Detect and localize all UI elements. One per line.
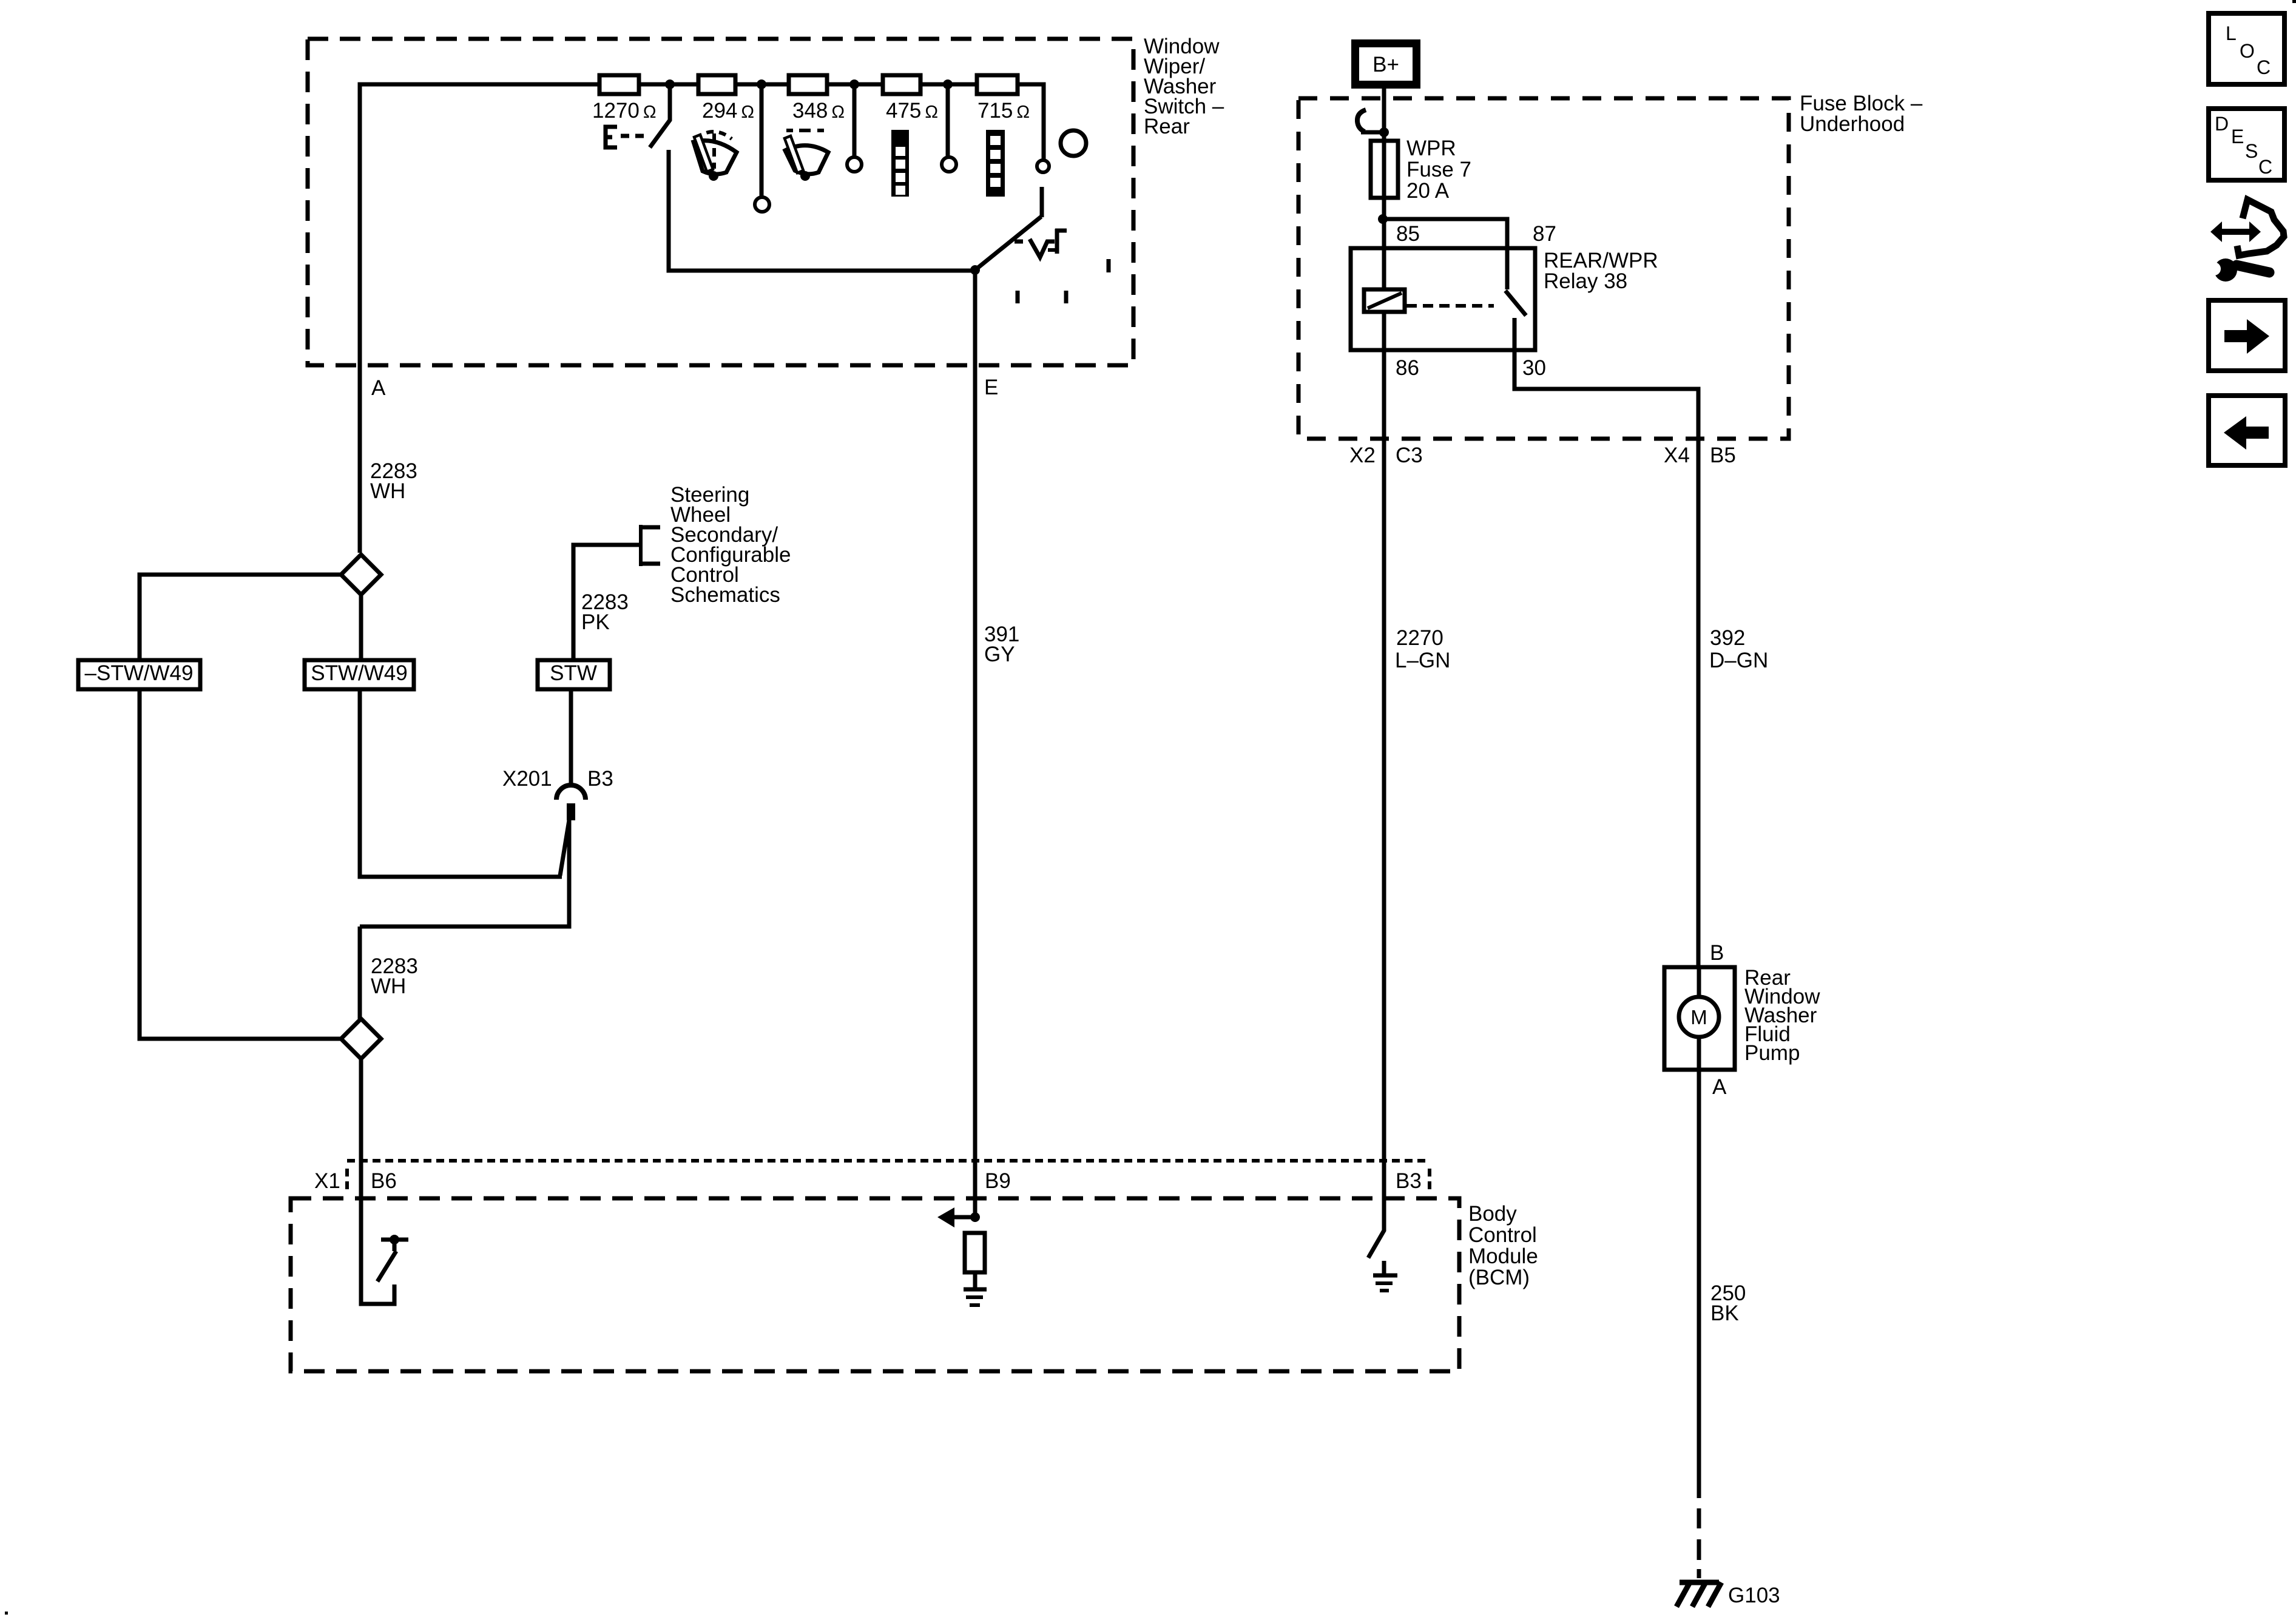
svg-text:A: A [1712, 1075, 1727, 1099]
svg-text:D–GN: D–GN [1709, 649, 1768, 672]
svg-text:C3: C3 [1396, 444, 1423, 467]
svg-text:X1: X1 [314, 1169, 340, 1193]
svg-text:715Ω: 715Ω [977, 99, 1030, 123]
svg-text:PK: PK [581, 610, 610, 634]
svg-text:Rear: Rear [1144, 115, 1190, 138]
svg-text:Underhood: Underhood [1800, 112, 1905, 136]
svg-text:X201: X201 [502, 767, 552, 791]
svg-text:B: B [1710, 941, 1724, 965]
svg-text:B3: B3 [1396, 1169, 1422, 1193]
svg-text:L–GN: L–GN [1395, 649, 1450, 672]
svg-text:Module: Module [1468, 1244, 1538, 1268]
svg-text:(BCM): (BCM) [1468, 1266, 1530, 1289]
svg-text:STW: STW [550, 661, 597, 685]
svg-text:STW/W49: STW/W49 [311, 661, 407, 685]
svg-text:86: 86 [1396, 356, 1419, 380]
svg-text:B5: B5 [1710, 444, 1736, 467]
svg-text:Pump: Pump [1744, 1041, 1800, 1065]
svg-text:B3: B3 [587, 767, 613, 791]
svg-text:X4: X4 [1664, 444, 1690, 467]
svg-text:–STW/W49: –STW/W49 [85, 661, 194, 685]
svg-text:D: D [2215, 113, 2229, 135]
svg-text:B+: B+ [1373, 53, 1399, 76]
svg-text:G103: G103 [1728, 1584, 1780, 1607]
svg-text:WPR: WPR [1406, 137, 1456, 160]
svg-text:GY: GY [984, 643, 1015, 666]
svg-text:S: S [2245, 140, 2258, 162]
svg-text:L: L [2226, 22, 2237, 44]
svg-text:B6: B6 [371, 1169, 397, 1193]
svg-text:2270: 2270 [1396, 626, 1443, 650]
svg-text:85: 85 [1396, 222, 1420, 246]
svg-text:WH: WH [371, 974, 406, 998]
svg-text:Body: Body [1468, 1202, 1517, 1226]
svg-text:Schematics: Schematics [670, 583, 780, 607]
svg-text:20 A: 20 A [1406, 179, 1450, 203]
svg-text:Relay 38: Relay 38 [1544, 269, 1627, 293]
svg-text:348Ω: 348Ω [792, 99, 845, 123]
svg-text:294Ω: 294Ω [702, 99, 754, 123]
svg-text:A: A [371, 376, 386, 400]
svg-text:C: C [2257, 56, 2271, 78]
svg-text:BK: BK [1710, 1301, 1739, 1325]
svg-text:C: C [2258, 156, 2272, 178]
svg-text:X2: X2 [1349, 444, 1376, 467]
svg-text:E: E [984, 376, 998, 399]
svg-text:Control: Control [1468, 1223, 1537, 1247]
svg-text:B9: B9 [985, 1169, 1011, 1193]
svg-text:475Ω: 475Ω [886, 99, 938, 123]
svg-text:M: M [1690, 1006, 1707, 1028]
svg-text:392: 392 [1710, 626, 1745, 650]
svg-text:30: 30 [1522, 356, 1546, 380]
svg-text:E: E [2231, 126, 2244, 147]
svg-text:87: 87 [1533, 222, 1556, 246]
svg-text:WH: WH [370, 479, 405, 503]
svg-text:1270Ω: 1270Ω [592, 99, 657, 123]
svg-text:O: O [2240, 40, 2255, 62]
svg-text:Fuse 7: Fuse 7 [1406, 158, 1471, 181]
